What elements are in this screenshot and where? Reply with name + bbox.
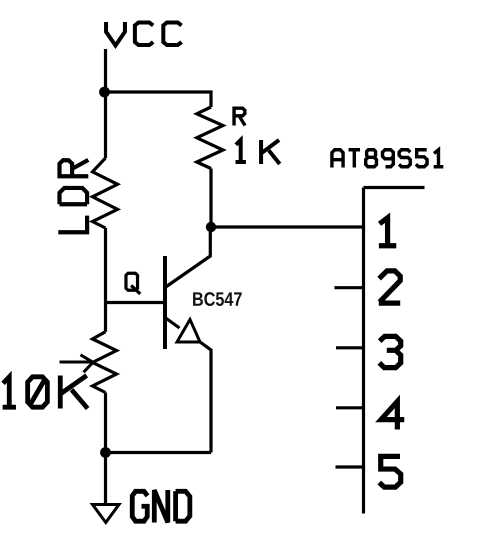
transistor emitter arrow (open triangle): [177, 320, 200, 343]
label 1K value: [236, 140, 280, 164]
resistor R (1K) zigzag: [197, 107, 223, 169]
pin number 3: [379, 336, 400, 367]
node ground junction: [100, 447, 111, 458]
wire collector to pin1: [211, 225, 364, 228]
node junction VCC rail: [99, 87, 110, 98]
transistor emitter lead upper: [165, 318, 180, 329]
IC U1 AT89S51 body line: [364, 188, 425, 514]
label LDR (rotated): [58, 160, 88, 232]
label BC547: [193, 292, 242, 306]
wire pot lower lead: [104, 393, 107, 453]
transistor emitter lead lower: [200, 342, 211, 453]
label 10K value: [3, 376, 88, 409]
wire top rail to R: [105, 92, 212, 107]
pin number 4: [381, 401, 404, 429]
transistor collector lead: [165, 227, 210, 288]
pin number 2: [379, 271, 400, 303]
pin number 5: [379, 456, 400, 487]
label VCC: [106, 22, 182, 46]
IC pin 5 tick: [336, 465, 364, 468]
ground symbol triangle: [93, 505, 120, 523]
label GND: [132, 490, 190, 523]
node collector junction: [206, 222, 216, 232]
resistor LDR zigzag: [93, 158, 118, 228]
wire LDR to base junction to pot: [104, 228, 107, 332]
label R: [234, 108, 245, 125]
wire R lower lead: [209, 169, 212, 228]
IC pin 3 tick: [336, 346, 364, 349]
label AT89S51: [332, 150, 443, 168]
potentiometer wiper arrow: [60, 355, 94, 373]
transistor Q1 BC547 base bar: [163, 256, 167, 349]
wire LDR upper lead: [104, 92, 107, 158]
label Q: [126, 273, 140, 294]
IC pin 4 tick: [336, 406, 364, 409]
IC pin 2 tick: [335, 286, 364, 289]
wire VCC lead: [104, 49, 107, 92]
wire emitter to ground junction: [106, 451, 212, 454]
pin number 1: [379, 218, 396, 246]
potentiometer 10K zigzag: [93, 332, 117, 393]
wire base: [106, 301, 166, 304]
wire GND lead: [104, 453, 107, 505]
